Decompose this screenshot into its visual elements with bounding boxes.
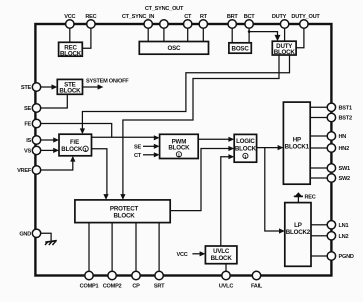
svg-text:CT: CT — [184, 14, 192, 20]
pin GND — [32, 229, 40, 237]
wire GND to ground symbol — [41, 233, 51, 240]
svg-text:COMP2: COMP2 — [103, 284, 122, 290]
pin VCC — [66, 20, 74, 28]
wire SE arrow into PWM — [143, 145, 154, 147]
wire PROTECT output to LOGIC BLOCK — [170, 149, 229, 211]
svg-text:FAIL: FAIL — [251, 284, 263, 290]
bottom pin labels — [80, 284, 263, 290]
svg-text:DUTY_OUT: DUTY_OUT — [291, 14, 320, 20]
svg-text:UVLC: UVLC — [213, 248, 230, 255]
wire HP to HN2 — [310, 147, 327, 149]
wire F/E second output to PROTECT BLOCK top — [92, 149, 107, 195]
svg-text:RT: RT — [200, 14, 208, 20]
svg-text:LP: LP — [294, 222, 302, 229]
svg-text:BLOCK: BLOCK — [114, 212, 136, 219]
pin BRT — [228, 20, 236, 28]
svg-text:GND: GND — [19, 232, 31, 238]
arrowhead LOGIC into HP BLOCK1 — [278, 145, 284, 150]
pin HN2 — [327, 144, 335, 152]
right pin labels — [339, 106, 354, 261]
pin SW1 — [327, 164, 335, 172]
wire HP to BST2 — [310, 117, 327, 119]
svg-text:BLOCK2: BLOCK2 — [286, 229, 311, 236]
pin LN2 — [327, 232, 335, 240]
svg-text:FE: FE — [24, 122, 31, 128]
pin BCT — [245, 20, 253, 28]
svg-text:COMP1: COMP1 — [80, 284, 99, 290]
wire LP to LN1 — [311, 224, 327, 226]
ground symbol — [45, 241, 57, 245]
svg-text:REC: REC — [305, 194, 316, 200]
pin STE — [32, 83, 40, 91]
wire UVLC BLOCK to UVLC pin — [225, 264, 227, 272]
wire DUTY BLOCK to F/E BLOCK top — [82, 55, 289, 129]
svg-text:CT_SYNC_OUT: CT_SYNC_OUT — [145, 6, 184, 12]
wire CT_SYNC_IN to OSC — [147, 24, 149, 42]
pin CT — [184, 20, 192, 28]
arrowhead PWM into LOGIC — [228, 137, 234, 142]
svg-text:VS: VS — [24, 149, 31, 155]
arrowhead VCC into UVLC — [200, 251, 206, 256]
svg-text:PROTECT: PROTECT — [110, 205, 139, 212]
top pins — [66, 20, 308, 28]
arrowhead CT into PWM — [154, 152, 160, 157]
svg-text:VCC: VCC — [64, 14, 75, 20]
wire DUTY pin to DUTY BLOCK — [284, 24, 286, 41]
pin LN1 — [327, 221, 335, 229]
arrowhead into PROTECT BLOCK top — [120, 194, 125, 200]
arrowhead SE into PWM — [154, 144, 160, 149]
wire HP to BST1 — [310, 106, 327, 108]
wire PROTECT to COMP2 — [111, 223, 113, 272]
svg-text:SW2: SW2 — [339, 176, 351, 182]
pin DUTY — [280, 20, 288, 28]
wire FE pin to F/E output node — [41, 124, 112, 138]
wire SE pin to STE BLOCK bottom — [41, 94, 67, 108]
svg-text:HP: HP — [293, 137, 301, 144]
wire HP to SW2 — [310, 177, 327, 179]
svg-text:BRT: BRT — [227, 14, 239, 20]
svg-text:BLOCK: BLOCK — [61, 146, 83, 153]
arrowhead VS into F/E — [53, 148, 59, 153]
pin SE — [32, 104, 40, 112]
duty block — [272, 41, 296, 56]
arrowhead UVLC into LOGIC — [228, 154, 234, 159]
arrowhead into PWM BLOCK — [154, 135, 160, 140]
pin IS — [32, 136, 40, 144]
PROTECT block — [75, 200, 170, 223]
wire CT to OSC — [187, 24, 189, 42]
right pins — [327, 103, 335, 260]
svg-text:SE: SE — [134, 144, 141, 150]
svg-text:OSC: OSC — [167, 45, 181, 52]
wire LOGIC output to HP BLOCK1 — [257, 147, 279, 149]
chip outline — [35, 24, 331, 276]
wire CT arrow into PWM — [143, 154, 154, 156]
wire BCT to BOSC — [248, 24, 250, 43]
svg-text:BLOCK: BLOCK — [60, 50, 82, 57]
LOGIC block — [234, 134, 256, 162]
arrowhead into LP BLOCK2 — [279, 228, 285, 233]
HP block1 — [283, 102, 310, 184]
svg-text:LN1: LN1 — [339, 223, 349, 229]
svg-text:VCC: VCC — [177, 252, 188, 258]
svg-text:BLOCK: BLOCK — [274, 49, 296, 56]
svg-text:SYSTEM ON/OFF: SYSTEM ON/OFF — [86, 79, 129, 85]
wire VCC arrow into UVLC BLOCK — [192, 253, 200, 255]
pin CT_SYNC_OUT — [160, 20, 168, 28]
svg-text:BST1: BST1 — [339, 106, 352, 112]
pin SW2 — [327, 174, 335, 182]
svg-text:HN2: HN2 — [339, 146, 350, 152]
pin BST1 — [327, 103, 335, 111]
wire BCT to DUTY BLOCK — [249, 32, 277, 37]
wire HP to SW1 — [310, 167, 327, 169]
wire HP to HN1 — [310, 135, 327, 137]
wire PROTECT to CP — [135, 223, 137, 272]
arrowhead PROTECT into LOGIC — [228, 146, 234, 151]
arrowhead VREF into F/E bottom — [70, 156, 75, 162]
svg-text:LOGIC: LOGIC — [236, 138, 255, 145]
top pin labels — [64, 6, 320, 20]
pin DUTY_OUT — [300, 20, 308, 28]
svg-text:VREF: VREF — [17, 168, 32, 174]
svg-text:SE: SE — [24, 106, 31, 112]
UVLC block — [205, 246, 237, 264]
wire PROTECT to SRT — [158, 223, 160, 272]
pin UVLC — [222, 271, 230, 279]
wire DUTY BLOCK to PROTECT BLOCK top — [123, 55, 279, 195]
arrowhead into PROTECT BLOCK top — [103, 194, 108, 200]
pin VREF — [32, 166, 40, 174]
pin COMP1 — [85, 271, 93, 279]
wire BRT to BOSC — [231, 24, 233, 43]
PWM block — [160, 134, 199, 158]
wire VS pin to F/E BLOCK — [41, 149, 54, 151]
wire PWM output to LOGIC BLOCK — [198, 138, 229, 140]
pin RT — [199, 20, 207, 28]
svg-text:DUTY: DUTY — [272, 14, 287, 20]
pin FAIL — [252, 271, 260, 279]
svg-text:REC: REC — [85, 14, 96, 20]
svg-text:CT_SYNC_IN: CT_SYNC_IN — [122, 14, 155, 20]
wire STE BLOCK output SYSTEM ON/OFF — [83, 86, 99, 88]
svg-text:BCT: BCT — [244, 14, 256, 20]
pin PGND — [327, 252, 335, 260]
ste block — [57, 79, 82, 94]
wire VCC to REC BLOCK — [69, 24, 71, 42]
svg-text:BLOCK1: BLOCK1 — [285, 144, 310, 151]
wire LOGIC output to LP BLOCK2 — [265, 148, 280, 231]
svg-text:CT: CT — [134, 153, 142, 159]
pin COMP2 — [108, 271, 116, 279]
wire PROTECT to COMP1 — [88, 223, 90, 272]
wire IS pin to F/E BLOCK — [41, 139, 54, 141]
wire VREF pin to F/E BLOCK bottom — [41, 161, 73, 170]
svg-text:BLOCK: BLOCK — [168, 145, 190, 152]
wire UVLC BLOCK to LOGIC BLOCK — [221, 157, 229, 246]
junction BCT node — [248, 30, 251, 33]
REC supply arrow for LP BLOCK2 — [294, 192, 316, 202]
svg-text:UVLC: UVLC — [219, 284, 233, 290]
pin SRT — [155, 271, 163, 279]
wire LP to LN2 — [311, 235, 327, 237]
svg-text:BLOCK: BLOCK — [235, 145, 257, 152]
LP block2 — [285, 203, 311, 267]
svg-text:BLOCK: BLOCK — [59, 88, 81, 95]
left pin labels — [17, 85, 32, 237]
left pins — [32, 83, 40, 238]
wire RT to OSC — [202, 24, 204, 42]
wire REC pin to REC BLOCK — [82, 24, 91, 48]
wire CT_SYNC_OUT to OSC — [163, 24, 165, 42]
pin BST2 — [327, 113, 335, 121]
burst oscillator block BOSC — [229, 43, 251, 53]
svg-text:STE: STE — [21, 85, 32, 91]
svg-text:SW1: SW1 — [339, 166, 351, 172]
wire F/E output to PWM BLOCK — [92, 136, 155, 138]
svg-text:SRT: SRT — [154, 284, 165, 290]
svg-text:LN2: LN2 — [339, 234, 349, 240]
oscillator block OSC — [139, 42, 208, 55]
svg-text:BST2: BST2 — [339, 116, 352, 122]
svg-text:BLOCK: BLOCK — [211, 255, 233, 262]
arrowhead into STE BLOCK — [52, 84, 58, 89]
pin CT_SYNC_IN — [144, 20, 152, 28]
pin REC — [87, 20, 95, 28]
arrowhead IS into F/E — [53, 137, 59, 142]
svg-text:PGND: PGND — [339, 254, 354, 260]
arrowhead into DUTY BLOCK top — [275, 35, 281, 41]
arrowhead SYSTEM ON/OFF — [98, 84, 104, 89]
pin VS — [32, 146, 40, 154]
wire DUTY_OUT to DUTY BLOCK — [296, 24, 304, 48]
svg-text:BOSC: BOSC — [232, 46, 250, 53]
wire LP to PGND — [311, 255, 327, 257]
wire STE pin to STE BLOCK — [41, 86, 52, 88]
pin FE — [32, 119, 40, 127]
pin HN1 — [327, 132, 335, 140]
rec block U-REC — [59, 42, 83, 57]
svg-text:CP: CP — [132, 284, 140, 290]
svg-text:IS: IS — [26, 138, 31, 144]
F/E block — [59, 134, 92, 156]
svg-text:HN: HN — [339, 134, 347, 140]
arrowhead into F/E BLOCK top — [80, 128, 85, 134]
pin CP — [132, 271, 140, 279]
bottom pins — [85, 271, 261, 279]
